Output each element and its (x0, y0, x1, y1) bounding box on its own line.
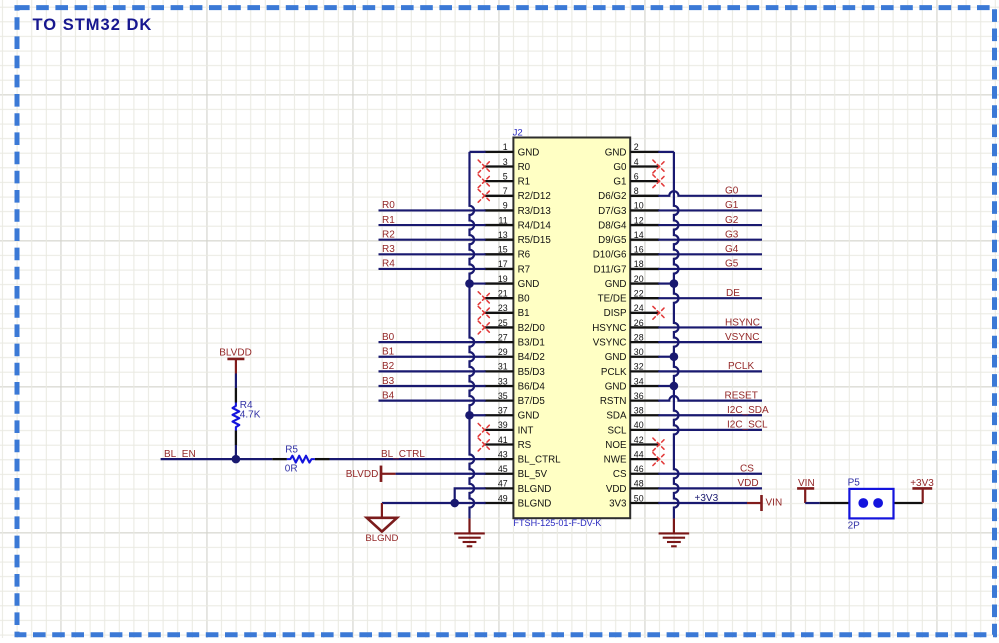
pin 24 (DISP) (604, 303, 660, 319)
no-connect pin 41 (478, 438, 491, 451)
pin 11 (R4/D14) (485, 215, 552, 231)
svg-text:3V3: 3V3 (609, 498, 627, 509)
svg-text:24: 24 (634, 303, 644, 313)
svg-text:BLVDD: BLVDD (346, 469, 379, 480)
pin 45 (BL_5V) (485, 464, 548, 480)
svg-text:INT: INT (518, 425, 534, 436)
svg-text:VDD: VDD (606, 484, 627, 495)
svg-text:+3V3: +3V3 (695, 493, 719, 504)
svg-text:17: 17 (498, 259, 508, 269)
svg-text:VIN: VIN (766, 498, 783, 509)
connector P5 (820, 477, 923, 531)
junction pin 19 (465, 279, 474, 288)
wire BLVDD to R4 (235, 374, 237, 389)
junction pin 20 (670, 279, 679, 288)
svg-text:SCL: SCL (607, 425, 627, 436)
pin 16 (D10/G6) (593, 245, 660, 261)
svg-text:3: 3 (503, 157, 508, 167)
svg-text:14: 14 (634, 230, 644, 240)
svg-text:R3/D13: R3/D13 (518, 206, 552, 217)
wire VIN to P5 (805, 502, 820, 504)
pin 4 (G0) (613, 157, 659, 173)
pin 22 (TE/DE) (598, 289, 660, 305)
svg-text:VSYNC: VSYNC (593, 337, 627, 348)
pin 18 (D11/G7) (593, 259, 659, 275)
svg-text:VDD: VDD (738, 478, 759, 489)
svg-text:R2/D12: R2/D12 (518, 191, 551, 202)
svg-text:B5/D3: B5/D3 (518, 367, 546, 378)
svg-text:HSYNC: HSYNC (592, 323, 626, 334)
svg-text:8: 8 (634, 186, 639, 196)
svg-text:R7: R7 (518, 264, 531, 275)
svg-text:R5/D15: R5/D15 (518, 235, 552, 246)
svg-text:5: 5 (503, 171, 508, 181)
svg-text:R5: R5 (285, 445, 298, 456)
wire net PCLK from pin 32 (658, 370, 762, 372)
pin 21 (B0) (485, 289, 531, 305)
resistor R5 0R (272, 445, 329, 475)
svg-text:9: 9 (503, 201, 508, 211)
no-connect pin 42 (653, 438, 666, 451)
pin 23 (B1) (485, 303, 530, 319)
pin 7 (R2/D12) (485, 186, 551, 202)
svg-text:GND: GND (518, 147, 540, 158)
svg-text:CS: CS (613, 469, 627, 480)
pin 10 (D7/G3) (598, 201, 659, 217)
connector J2 body (513, 138, 630, 519)
pin 43 (BL_CTRL) (485, 449, 562, 465)
svg-text:2: 2 (634, 142, 639, 152)
svg-text:PCLK: PCLK (601, 367, 627, 378)
pin 31 (B5/D3) (485, 362, 546, 378)
svg-text:28: 28 (634, 332, 644, 342)
wire net B1 to pin 29 (379, 356, 486, 358)
svg-text:B6/D4: B6/D4 (518, 381, 546, 392)
pin 13 (R5/D15) (485, 230, 552, 246)
svg-text:46: 46 (634, 464, 644, 474)
svg-text:NWE: NWE (604, 455, 627, 466)
pin 19 (GND) (485, 274, 540, 290)
pin 33 (B6/D4) (485, 376, 546, 392)
pin 36 (RSTN) (600, 391, 659, 407)
svg-text:GND: GND (605, 352, 627, 363)
svg-text:7: 7 (503, 186, 508, 196)
svg-text:G1: G1 (613, 177, 626, 188)
svg-text:B1: B1 (518, 308, 530, 319)
wire net RESET from pin 36 (658, 396, 762, 401)
pin 29 (B4/D2) (485, 347, 545, 363)
svg-text:45: 45 (498, 464, 508, 474)
svg-text:B4: B4 (382, 390, 395, 401)
svg-text:41: 41 (498, 435, 508, 445)
pin 25 (B2/D0) (485, 318, 546, 334)
svg-text:35: 35 (498, 391, 508, 401)
svg-text:38: 38 (634, 406, 644, 416)
pin 27 (B3/D1) (485, 332, 545, 348)
pin 14 (D9/G5) (598, 230, 659, 246)
svg-text:BL_CTRL: BL_CTRL (518, 455, 562, 466)
wire pin1 stub (470, 151, 486, 153)
svg-text:I2C_SCL: I2C_SCL (727, 420, 768, 431)
svg-text:1: 1 (503, 142, 508, 152)
svg-text:4: 4 (634, 157, 639, 167)
no-connect pin 6 (653, 175, 666, 188)
svg-text:11: 11 (499, 215, 508, 225)
svg-text:GND: GND (605, 279, 627, 290)
svg-text:RSTN: RSTN (600, 396, 627, 407)
pin 9 (R3/D13) (485, 201, 552, 217)
wire pin47 elbow (455, 488, 486, 503)
junction pin 37 (465, 411, 474, 420)
wire net I2C_SCL from pin 40 (658, 429, 762, 431)
svg-text:G3: G3 (725, 229, 739, 240)
svg-text:NOE: NOE (605, 440, 627, 451)
no-connect pin 7 (478, 189, 491, 202)
wire net G5 from pin 18 (658, 268, 762, 270)
svg-text:32: 32 (634, 362, 644, 372)
wire pin50 to VIN (658, 502, 747, 504)
svg-text:40: 40 (634, 420, 644, 430)
svg-text:TO STM32 DK: TO STM32 DK (33, 16, 153, 34)
wire BL_CTRL (330, 458, 486, 460)
pin 2 (GND) (605, 142, 660, 158)
svg-text:33: 33 (498, 376, 508, 386)
svg-text:B2: B2 (382, 361, 395, 372)
wire net VDD from pin 48 (658, 487, 762, 489)
wire R4 to BL_EN junction (235, 445, 237, 459)
svg-text:13: 13 (498, 230, 508, 240)
wire net R4 to pin 17 (379, 268, 486, 270)
svg-text:34: 34 (634, 376, 644, 386)
wire BLVDD to pin45 (396, 473, 486, 475)
wire net G1 from pin 10 (658, 209, 762, 211)
wire net G2 from pin 12 (658, 224, 762, 226)
svg-text:47: 47 (498, 479, 508, 489)
svg-text:GND: GND (518, 279, 540, 290)
pin 20 (GND) (605, 274, 660, 290)
svg-text:GND: GND (518, 411, 540, 422)
svg-text:B4/D2: B4/D2 (518, 352, 545, 363)
svg-text:50: 50 (634, 493, 644, 503)
wire pin 19 stub (470, 282, 486, 284)
svg-text:PCLK: PCLK (728, 361, 754, 372)
no-connect pin 23 (478, 306, 491, 319)
svg-text:B2/D0: B2/D0 (518, 323, 546, 334)
svg-text:16: 16 (634, 245, 644, 255)
svg-text:RS: RS (518, 440, 532, 451)
svg-text:BL_5V: BL_5V (518, 469, 548, 480)
pin 35 (B7/D5) (485, 391, 546, 407)
svg-text:CS: CS (740, 464, 754, 475)
svg-text:R4: R4 (382, 259, 395, 270)
svg-text:43: 43 (498, 449, 508, 459)
wire net R1 to pin 11 (379, 224, 486, 226)
svg-text:D8/G4: D8/G4 (598, 220, 627, 231)
svg-text:G1: G1 (725, 200, 739, 211)
no-connect pin 44 (653, 453, 666, 466)
pin 48 (VDD) (606, 479, 659, 495)
svg-text:22: 22 (634, 289, 644, 299)
svg-text:R3: R3 (382, 244, 395, 255)
junction pin47/pin49 (450, 499, 459, 508)
svg-text:R0: R0 (518, 162, 531, 173)
wire net G3 from pin 14 (658, 239, 762, 241)
svg-text:31: 31 (498, 362, 508, 372)
svg-text:19: 19 (498, 274, 508, 284)
wire net G0 from pin 8 (658, 191, 762, 196)
no-connect pin 25 (478, 321, 491, 334)
junction pin 30 (670, 352, 679, 361)
wire net G4 from pin 16 (658, 253, 762, 255)
svg-text:R4/D14: R4/D14 (518, 220, 552, 231)
pin 37 (GND) (485, 406, 540, 422)
svg-text:BLGND: BLGND (518, 498, 552, 509)
svg-text:D9/G5: D9/G5 (598, 235, 627, 246)
wire net R2 to pin 13 (379, 239, 486, 241)
wire GND left vertical (pin1-19-37-ground) (470, 152, 475, 519)
wire net B4 to pin 35 (379, 400, 486, 402)
svg-text:B3/D1: B3/D1 (518, 337, 545, 348)
pin 50 (3V3) (609, 493, 659, 509)
no-connect pin 4 (653, 160, 666, 173)
wire net HSYNC from pin 26 (658, 326, 762, 328)
svg-text:48: 48 (634, 479, 644, 489)
svg-text:BLVDD: BLVDD (219, 348, 252, 359)
wire pin 34 stub (658, 385, 674, 387)
svg-text:DE: DE (726, 288, 740, 299)
no-connect pin 5 (478, 175, 491, 188)
junction pin 34 (670, 382, 679, 391)
wire BL_EN (161, 458, 273, 460)
svg-text:R1: R1 (382, 215, 395, 226)
svg-text:37: 37 (498, 406, 508, 416)
no-connect pin 21 (478, 292, 491, 305)
svg-text:30: 30 (634, 347, 644, 357)
junction R4/BL_EN (232, 455, 241, 464)
svg-text:GND: GND (605, 147, 627, 158)
svg-text:G0: G0 (613, 162, 627, 173)
svg-text:HSYNC: HSYNC (725, 317, 760, 328)
svg-text:B0: B0 (518, 294, 531, 305)
svg-text:SDA: SDA (606, 411, 627, 422)
pin 6 (G1) (613, 171, 659, 187)
wire pin 30 stub (658, 356, 674, 358)
pin 46 (CS) (613, 464, 659, 480)
pin 38 (SDA) (606, 406, 659, 422)
svg-text:J2: J2 (513, 128, 523, 139)
svg-text:20: 20 (634, 274, 644, 284)
svg-text:0R: 0R (285, 464, 298, 475)
svg-text:D7/G3: D7/G3 (598, 206, 627, 217)
wire net VSYNC from pin 28 (658, 341, 762, 343)
pin 26 (HSYNC) (592, 318, 659, 334)
pin 32 (PCLK) (601, 362, 659, 378)
svg-text:DISP: DISP (604, 308, 627, 319)
wire net B3 to pin 33 (379, 385, 486, 387)
svg-text:10: 10 (634, 201, 644, 211)
pin 42 (NOE) (605, 435, 659, 451)
wire net B2 to pin 31 (379, 370, 486, 372)
pin 47 (BLGND) (485, 479, 552, 495)
svg-text:B7/D5: B7/D5 (518, 396, 546, 407)
svg-text:RESET: RESET (725, 390, 758, 401)
svg-text:GND: GND (605, 381, 627, 392)
pin 39 (INT) (485, 420, 534, 436)
svg-text:26: 26 (634, 318, 644, 328)
svg-text:D11/G7: D11/G7 (593, 264, 626, 275)
wire net CS from pin 46 (658, 473, 762, 475)
svg-text:B3: B3 (382, 376, 395, 387)
svg-text:29: 29 (498, 347, 508, 357)
svg-text:R0: R0 (382, 200, 395, 211)
power port +3V3 (P5 right) (910, 478, 934, 503)
pin 30 (GND) (605, 347, 660, 363)
wire net I2C_SDA from pin 38 (658, 414, 762, 416)
pin 41 (RS) (485, 435, 532, 451)
wire net B0 to pin 27 (379, 341, 486, 343)
pin 1 (GND) (485, 142, 540, 158)
svg-text:G4: G4 (725, 244, 739, 255)
wire pin2 stub (658, 151, 674, 153)
wire net DE from pin 22 (658, 297, 762, 299)
pin 44 (NWE) (604, 449, 660, 465)
svg-text:44: 44 (634, 449, 644, 459)
no-connect pin 24 (653, 306, 666, 319)
svg-text:12: 12 (634, 215, 644, 225)
svg-text:P5: P5 (848, 477, 861, 488)
pin 12 (D8/G4) (598, 215, 659, 231)
svg-text:4.7K: 4.7K (240, 410, 261, 421)
svg-text:BLGND: BLGND (365, 533, 398, 544)
wire net R0 to pin 9 (379, 209, 486, 211)
svg-text:6: 6 (634, 171, 639, 181)
svg-text:BL_CTRL: BL_CTRL (381, 449, 425, 460)
svg-text:27: 27 (498, 332, 508, 342)
svg-text:15: 15 (498, 245, 508, 255)
svg-text:G2: G2 (725, 215, 739, 226)
svg-text:42: 42 (634, 435, 644, 445)
svg-text:21: 21 (498, 289, 508, 299)
wire GND right vertical (pin2-20-30-34-ground) (674, 152, 679, 519)
power port VIN (right of pin50) (747, 495, 782, 511)
power port BLGND (triangle) (365, 503, 398, 544)
svg-text:23: 23 (498, 303, 508, 313)
svg-text:36: 36 (634, 391, 644, 401)
svg-text:39: 39 (498, 420, 508, 430)
svg-text:D6/G2: D6/G2 (598, 191, 626, 202)
pin 15 (R6) (485, 245, 531, 261)
svg-text:R2: R2 (382, 229, 395, 240)
svg-text:G0: G0 (725, 186, 739, 197)
pin 40 (SCL) (607, 420, 659, 436)
pin 3 (R0) (485, 157, 531, 173)
svg-text:FTSH-125-01-F-DV-K: FTSH-125-01-F-DV-K (513, 518, 601, 528)
resistor R4 4.7K (233, 388, 261, 445)
svg-text:2P: 2P (848, 521, 861, 532)
svg-text:G5: G5 (725, 259, 739, 270)
svg-text:BLGND: BLGND (518, 484, 552, 495)
svg-text:B1: B1 (382, 347, 395, 358)
power port BLVDD (top) (219, 348, 252, 374)
wire pin 20 stub (658, 282, 674, 284)
svg-text:VSYNC: VSYNC (725, 332, 759, 343)
pin 28 (VSYNC) (593, 332, 660, 348)
svg-text:49: 49 (498, 493, 508, 503)
ground (right) (659, 519, 690, 547)
ground (left) (454, 519, 485, 547)
svg-text:18: 18 (634, 259, 644, 269)
svg-text:TE/DE: TE/DE (598, 294, 627, 305)
svg-text:R1: R1 (518, 177, 531, 188)
power port BLVDD (pin45) (346, 466, 396, 482)
pin 17 (R7) (485, 259, 531, 275)
power port VIN (P5 left) (797, 478, 815, 503)
no-connect pin 39 (478, 424, 491, 437)
svg-text:I2C_SDA: I2C_SDA (727, 405, 769, 416)
svg-text:B0: B0 (382, 332, 395, 343)
svg-text:D10/G6: D10/G6 (593, 250, 627, 261)
pin 34 (GND) (605, 376, 660, 392)
svg-text:25: 25 (498, 318, 508, 328)
svg-text:R6: R6 (518, 250, 531, 261)
wire pin 37 stub (470, 414, 486, 416)
pin 5 (R1) (485, 171, 531, 187)
no-connect pin 3 (478, 160, 491, 173)
wire net R3 to pin 15 (379, 253, 486, 255)
wire BLGND to pin49 (382, 502, 486, 504)
pin 49 (BLGND) (485, 493, 552, 509)
pin 8 (D6/G2) (598, 186, 659, 202)
